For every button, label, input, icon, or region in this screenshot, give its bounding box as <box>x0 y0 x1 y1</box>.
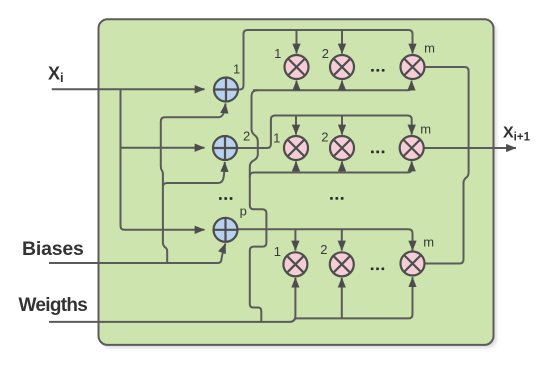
multiplier M22 <box>330 136 354 160</box>
svg-text:m: m <box>423 235 434 250</box>
svg-text:p: p <box>240 204 247 219</box>
svg-text:2: 2 <box>320 242 327 257</box>
ellipsis row1 <box>371 69 384 72</box>
wire: Xi input to adder 1 <box>52 88 205 90</box>
svg-text:1: 1 <box>233 62 240 77</box>
adder U1 <box>214 78 238 102</box>
wire: row2 top drop 1 <box>295 116 297 135</box>
wire: right side vertical joining m-column outputs <box>425 67 469 264</box>
svg-text:2: 2 <box>243 129 250 144</box>
multiplier M11 <box>285 55 309 79</box>
wire: row1 bottom riser 1 <box>296 81 298 91</box>
svg-text:1: 1 <box>274 244 281 259</box>
svg-text:2: 2 <box>322 46 329 61</box>
svg-text:m: m <box>424 41 435 56</box>
wire: adder3 output across row3 tops <box>238 229 413 250</box>
adder U2 <box>213 136 237 160</box>
wire: bias branch into adder2 <box>163 162 225 187</box>
multiplier M2m <box>400 136 424 160</box>
wire: row2 bottom riser 2 <box>341 162 343 173</box>
svg-text:Xi+1: Xi+1 <box>503 125 531 144</box>
wire: bias trunk up from rail <box>161 104 226 264</box>
wire: weights trunk (rail to row1 bottom feed) <box>250 90 267 322</box>
wire: row3 top drop 2 <box>341 229 343 250</box>
wire: Xi branch into adder 2 <box>121 147 205 149</box>
svg-text:1: 1 <box>273 131 280 146</box>
multiplier M31 <box>283 252 307 276</box>
wire: biases rail with turn up into adder3 <box>49 244 226 264</box>
wire: weigths rail with turn up into mult row3 1 <box>49 278 295 322</box>
svg-text:m: m <box>420 122 431 137</box>
wire: row2 bottom feed from trunk <box>250 162 412 177</box>
wire: row1 top drop 2 <box>341 30 343 54</box>
node labels <box>233 41 435 259</box>
wire: adder1 output up and across row1 tops <box>238 30 413 90</box>
wire: Xi+1 output from mult row2 m <box>424 147 516 149</box>
wire: adder2 output up and across row2 tops <box>237 116 412 149</box>
multiplier M21 <box>284 136 308 160</box>
multiplier M3m <box>401 252 425 276</box>
ellipsis row2 <box>371 151 384 154</box>
wire: row2 bottom riser 1 <box>295 162 297 173</box>
wire: row1 top drop 1 <box>296 30 298 54</box>
ellipsis middle area <box>330 197 343 200</box>
multiplier M1m <box>401 55 425 79</box>
container box shadow <box>102 22 497 348</box>
wire: row3 bottom branch across <box>295 277 412 318</box>
container box <box>99 19 494 345</box>
wire: row3 bottom riser 2 <box>341 278 343 319</box>
wire: row1 bottom feed across <box>253 81 412 91</box>
svg-text:Biases: Biases <box>22 238 84 260</box>
ellipsis row3 <box>371 267 384 270</box>
wire: row2 top drop 2 <box>341 116 343 135</box>
svg-text:1: 1 <box>274 46 281 61</box>
wire: Xi trunk down with turn into adder 3 <box>121 89 205 230</box>
svg-text:Xi: Xi <box>48 64 64 86</box>
wire: row1 bottom riser 2 <box>341 81 343 91</box>
adder U3 <box>214 218 238 242</box>
multiplier M12 <box>330 55 354 79</box>
ellipsis between adder2 and adder3 <box>219 197 232 200</box>
multiplier M32 <box>330 252 354 276</box>
wire: row3 top drop 1 <box>294 229 296 250</box>
svg-text:2: 2 <box>321 130 328 145</box>
svg-text:Weigths: Weigths <box>19 295 88 316</box>
